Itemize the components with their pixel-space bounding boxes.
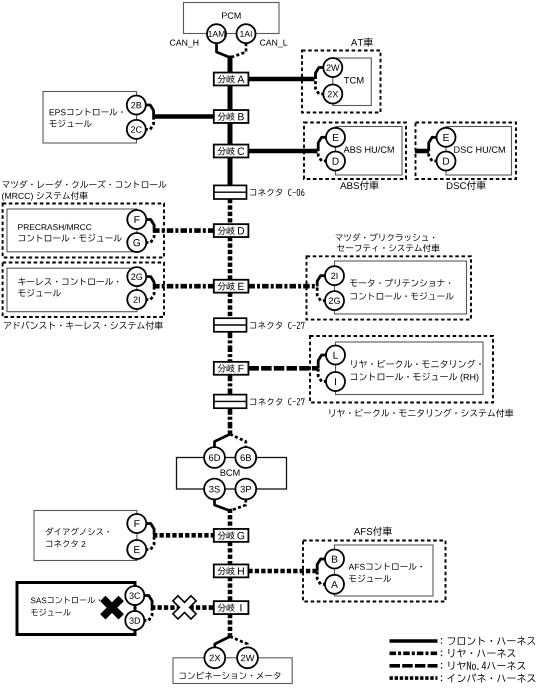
option box DSC付車 (dashed) bbox=[416, 123, 517, 180]
module rear vehicle monitoring control module (RH) bbox=[336, 342, 484, 395]
wire trunk G to H (instrument panel) bbox=[228, 542, 233, 565]
module keyless control module bbox=[7, 268, 137, 312]
wire trunk C-06 to D (instrument panel) bbox=[228, 199, 233, 225]
pin 2C of EPS control module bbox=[127, 120, 146, 139]
legend instrument panel harness label bbox=[441, 675, 442, 681]
branch box D bbox=[214, 224, 249, 237]
wire stub to DSC bbox=[415, 149, 429, 154]
wire trunk A to B bbox=[228, 85, 233, 111]
wire elbow from pin D (CAN_L, dashed) bbox=[318, 151, 327, 161]
branch box I bbox=[214, 601, 249, 614]
label precrash safety line2 bbox=[337, 244, 439, 252]
pin 2W of combination meter bbox=[237, 647, 258, 668]
pin D of DSC HU/CM bbox=[437, 152, 456, 171]
wire PRECRASH to branch D (rear harness) bbox=[153, 228, 214, 233]
wire elbow from pin F (CAN_H, solid) bbox=[145, 524, 154, 536]
wire CAN_H pigtail from pin 1AM bbox=[217, 43, 229, 57]
label CAN_H bbox=[170, 40, 198, 48]
wire elbow from pin B (CAN_H, solid) bbox=[317, 559, 326, 571]
pin 2B of EPS control module bbox=[127, 96, 146, 115]
pin 6B of BCM bbox=[235, 447, 256, 468]
pin 2G of keyless module bbox=[127, 267, 146, 286]
option box PRECRASH (dashed) bbox=[3, 204, 164, 258]
option box precrash safety (dashed) bbox=[307, 256, 472, 319]
wire keyless to branch E (rear harness) bbox=[153, 284, 214, 289]
pin I of rear vehicle monitoring module bbox=[326, 372, 345, 391]
pin 3D of SAS control module bbox=[125, 611, 144, 630]
label ABS付車 bbox=[340, 181, 379, 190]
connector C-27 lower bbox=[214, 395, 247, 409]
legend instrument panel harness swatch bbox=[390, 676, 438, 680]
wire split to 6B (dashed) bbox=[230, 434, 246, 447]
wire elbow from pin 2C (CAN_L, dashed) bbox=[145, 117, 154, 130]
label DSC付車 bbox=[447, 181, 486, 190]
wire elbow from pin 2B (CAN_H, solid) bbox=[145, 105, 154, 117]
module PRECRASH/MRCC control module bbox=[7, 209, 137, 252]
pin E of diagnosis connector 2 bbox=[127, 540, 146, 559]
wire elbow from pin 2I (CAN_H, solid) bbox=[317, 276, 326, 287]
wire elbow from pin I (CAN_L, dashed) bbox=[318, 368, 327, 381]
wire elbow from pin E (CAN_L, dashed) bbox=[145, 535, 154, 549]
module DSC HU/CM bbox=[446, 127, 512, 176]
wire trunk I to combination meter (instrument panel) bbox=[228, 614, 233, 637]
wire SAS to branch I (instrument panel) bbox=[151, 605, 214, 610]
wire elbow from pin 2W (CAN_H, solid) bbox=[316, 68, 325, 80]
X mark inside SAS module bbox=[100, 596, 124, 620]
branch box A bbox=[214, 73, 249, 86]
wire elbow from pin 3D (CAN_L, dashed) bbox=[143, 608, 152, 621]
wire trunk H to I (instrument panel) bbox=[228, 577, 233, 602]
option box AFS付車 (dashed) bbox=[303, 541, 446, 602]
wire trunk C-27 to BCM (rear harness) bbox=[228, 408, 233, 434]
wire branch F to rear vehicle monitoring (rear No.4 harness) bbox=[248, 366, 318, 371]
wire trunk C to connector C-06 bbox=[228, 157, 233, 186]
option box ABS付車 (dashed) bbox=[304, 123, 406, 180]
label MRCC system line1 bbox=[2, 180, 166, 188]
legend front harness label bbox=[441, 638, 442, 644]
pin 3S of BCM bbox=[204, 479, 225, 500]
branch box F bbox=[214, 362, 249, 375]
module PCM bbox=[184, 3, 280, 34]
module SAS control module (disconnected) bbox=[17, 583, 135, 635]
wire elbow from pin F (CAN_H, solid) bbox=[145, 220, 154, 231]
wire EPS to branch B (front harness) bbox=[153, 114, 214, 119]
wire trunk F to connector C-27 lower (rear harness) bbox=[228, 375, 233, 395]
label AT車 bbox=[351, 38, 373, 47]
wire elbow from pin G (CAN_L, dashed) bbox=[145, 231, 154, 243]
module AFS control module bbox=[335, 545, 434, 596]
pin 2X of TCM bbox=[323, 85, 342, 104]
wire elbow from pin 2G (CAN_H, solid) bbox=[145, 277, 154, 287]
wire trunk BCM to G (instrument panel) bbox=[228, 509, 233, 530]
label precrash safety line1 bbox=[336, 233, 435, 241]
wire trunk E to connector C-27 upper (instrument panel) bbox=[228, 293, 233, 319]
module TCM bbox=[333, 58, 372, 106]
legend rear No.4 harness swatch bbox=[390, 664, 438, 668]
label advanced keyless bbox=[4, 321, 163, 330]
branch box G bbox=[214, 529, 249, 542]
module motor pretensioner bbox=[335, 261, 467, 314]
label rear vehicle monitoring system bbox=[330, 409, 514, 418]
legend front harness swatch bbox=[390, 639, 438, 643]
legend rear harness label bbox=[441, 650, 442, 656]
legend rear No.4 harness label bbox=[441, 663, 442, 669]
module diagnosis connector 2 bbox=[34, 511, 137, 561]
pin D of ABS HU/CM bbox=[326, 152, 345, 171]
module combination meter bbox=[173, 658, 292, 684]
pin B of AFS control module bbox=[325, 550, 344, 569]
wire 3S to merge (solid) bbox=[215, 499, 230, 510]
pin 2I of keyless module bbox=[127, 290, 146, 309]
pin 2W of TCM bbox=[323, 58, 342, 77]
branch box B bbox=[214, 110, 249, 123]
wire split to 2X (solid) bbox=[215, 637, 230, 648]
connector C-06 bbox=[214, 185, 247, 199]
pin L of rear vehicle monitoring module bbox=[326, 346, 345, 365]
wire elbow from pin 3C (CAN_H, solid) bbox=[143, 596, 152, 608]
wire split to 2W (dashed) bbox=[230, 637, 248, 648]
pin 1AI of PCM bbox=[237, 24, 256, 43]
connector C-27 upper bbox=[214, 318, 247, 332]
pin E of ABS HU/CM bbox=[326, 128, 345, 147]
wire 3P to merge (dashed) bbox=[231, 499, 246, 510]
wire trunk C-27 to F (rear harness) bbox=[228, 332, 233, 363]
legend rear harness swatch bbox=[390, 651, 438, 655]
pin 6D of BCM bbox=[204, 447, 225, 468]
pin 1AM of PCM bbox=[207, 24, 226, 43]
label コネクタ C-06 bbox=[250, 188, 304, 196]
pin G of PRECRASH/MRCC module bbox=[127, 233, 146, 252]
module BCM box bbox=[177, 458, 287, 490]
module EPS control module bbox=[43, 92, 137, 144]
wire split to 6D (solid) bbox=[215, 434, 231, 447]
wire elbow from pin E (CAN_H, solid) bbox=[429, 137, 438, 151]
label コネクタ C-27 lower bbox=[250, 398, 304, 406]
wire elbow from pin 2X (CAN_L, dashed) bbox=[316, 79, 325, 94]
wire elbow from pin D (CAN_L, dashed) bbox=[429, 151, 438, 161]
wire elbow from pin E (CAN_H, solid) bbox=[318, 137, 327, 151]
option box keyless (dashed) bbox=[3, 263, 164, 318]
wire branch A to TCM (front harness) bbox=[248, 77, 314, 82]
pin 2G of motor pretensioner module bbox=[325, 291, 344, 310]
wire branch H to AFS (instrument panel) bbox=[248, 569, 317, 574]
pin 2X of combination meter bbox=[204, 647, 225, 668]
pin 3C of SAS control module bbox=[125, 586, 144, 605]
pin A of AFS control module bbox=[325, 575, 344, 594]
wire elbow from pin A (CAN_L, dashed) bbox=[317, 571, 326, 584]
branch box E bbox=[214, 280, 249, 293]
label コネクタ C-27 upper bbox=[250, 321, 304, 329]
wire trunk D to E (instrument panel) bbox=[228, 237, 233, 281]
wire elbow from pin 2I (CAN_L, dashed) bbox=[145, 286, 154, 299]
branch box C bbox=[214, 145, 249, 158]
pin 2I of motor pretensioner module bbox=[325, 266, 344, 285]
option box AT車 (dashed) bbox=[302, 51, 381, 113]
wire branch E to motor pretensioner (rear harness) bbox=[248, 284, 317, 289]
label CAN_L bbox=[260, 40, 287, 48]
label MRCC system line2 bbox=[2, 191, 88, 200]
pin 3P of BCM bbox=[235, 479, 256, 500]
label AFS付車 bbox=[354, 526, 392, 535]
wire diagnosis to branch G (instrument panel) bbox=[153, 533, 214, 538]
pin F of PRECRASH/MRCC module bbox=[127, 210, 146, 229]
wire trunk PCM to branch A (front harness) bbox=[228, 56, 233, 75]
pin E of DSC HU/CM bbox=[437, 128, 456, 147]
module ABS HU/CM bbox=[336, 127, 403, 176]
branch box H bbox=[214, 564, 249, 577]
wire elbow from pin L (CAN_H, solid) bbox=[318, 355, 327, 368]
X mark on wire (disconnect point) bbox=[173, 596, 196, 619]
option box rear vehicle monitoring (dashed) bbox=[310, 336, 493, 403]
wire branch C to ABS (front harness) bbox=[248, 149, 317, 154]
wire CAN_L pigtail from pin 1AI (dashed) bbox=[232, 43, 246, 57]
wire elbow from pin 2G (CAN_L, dashed) bbox=[317, 286, 326, 300]
wire trunk B to C bbox=[228, 123, 233, 146]
pin F of diagnosis connector 2 bbox=[127, 514, 146, 533]
